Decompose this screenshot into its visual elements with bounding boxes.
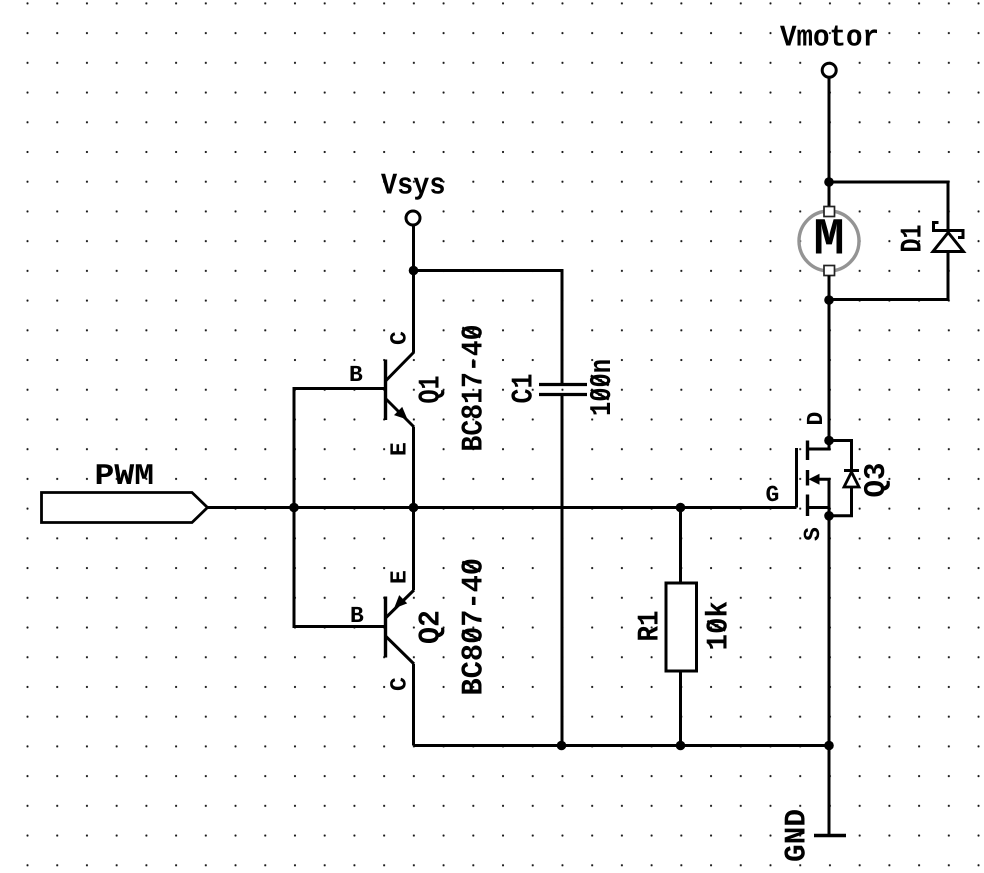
pin label G <box>766 486 778 502</box>
body diode branch top <box>829 441 852 471</box>
pin label C <box>390 332 406 344</box>
transistor Q1 BC817-40 NPN <box>351 326 482 455</box>
node junction Q1/Q2 emitters / PWM <box>409 503 419 513</box>
pin label E <box>390 571 405 582</box>
designator Q2 <box>418 612 444 643</box>
drain lead <box>809 441 829 450</box>
node junction R1 bottom <box>676 741 686 751</box>
node junction Vsys / C1 / Q1 collector <box>409 266 419 276</box>
wire base tie lower <box>294 508 385 627</box>
wire bottom rail Q2 to C1 <box>414 744 562 747</box>
pin label D <box>807 413 822 424</box>
resistor R1 10k <box>638 583 727 671</box>
bulk lead with arrow <box>815 479 829 516</box>
wire bottom rail R1 to GND node <box>681 744 830 747</box>
node junction source <box>824 511 834 521</box>
net flag PWM <box>42 464 208 522</box>
wire Q3 source vertical <box>828 516 831 746</box>
body diode <box>844 469 859 472</box>
designator R1 <box>638 612 658 640</box>
wire Q1 emitter node to R1 node <box>414 506 681 509</box>
power flag Vsys <box>381 174 444 225</box>
value 10k <box>705 602 727 649</box>
wire top rail to C1 <box>414 271 563 385</box>
transistor Q3 N-MOSFET <box>766 413 890 541</box>
transistor Q2 BC807-40 PNP <box>352 560 482 694</box>
pin label S <box>804 528 820 541</box>
pin label C <box>390 678 406 690</box>
wire Q3 drain vertical <box>828 300 831 441</box>
wire GND vertical <box>828 746 831 836</box>
wire PWM to base-tie junction <box>208 506 295 509</box>
wire D1 bottom branch <box>829 252 948 300</box>
wire R1 bottom vertical <box>679 671 682 746</box>
wire motor top lead <box>828 182 831 208</box>
designator D1 <box>901 226 921 252</box>
wire bottom rail C1 to R1 <box>562 744 681 747</box>
value BC817-40 <box>461 326 481 450</box>
designator C1 <box>511 375 531 403</box>
wire base-tie junction to Q1 emitter node <box>294 506 414 509</box>
wire Q2 collector vertical <box>412 664 415 746</box>
pin label E <box>390 443 405 454</box>
power flag Vmotor <box>780 26 877 78</box>
node junction C1 bottom <box>557 741 567 751</box>
value BC807-40 <box>461 560 481 694</box>
gate bar <box>795 448 798 508</box>
node junction motor top / D1 <box>824 177 834 187</box>
source lead <box>809 508 829 516</box>
node junction base tie / PWM <box>289 503 299 513</box>
designator Q3 <box>864 464 890 497</box>
wire R1 top vertical <box>679 508 682 584</box>
wire Q1 emitter vertical <box>412 427 415 508</box>
value 100n <box>590 360 610 414</box>
diode D1 schottky <box>901 223 964 252</box>
node junction motor bottom / D1 <box>824 295 834 305</box>
wire base tie upper <box>294 389 385 508</box>
wire D1 top branch <box>829 182 948 231</box>
channel dashes <box>806 441 809 461</box>
wire Vmotor drop <box>828 77 831 182</box>
motor M1 <box>799 207 859 276</box>
wire Q2 emitter vertical <box>412 508 415 591</box>
pin label B <box>351 366 363 381</box>
node junction source / bottom rail <box>824 741 834 751</box>
pin label B <box>352 607 364 622</box>
node junction gate / R1 <box>676 503 686 513</box>
wire Vsys drop <box>412 225 415 270</box>
designator Q1 <box>418 377 444 403</box>
wire R1 node to Q3 gate <box>681 506 797 509</box>
wire Q1 collector vertical <box>412 271 415 353</box>
capacitor C1 100n <box>511 360 610 414</box>
node junction drain <box>824 436 834 446</box>
ground GND <box>784 810 846 861</box>
wire motor bottom lead <box>828 276 831 301</box>
wire C1 bottom vertical <box>561 395 564 746</box>
body diode branch bottom <box>829 487 852 516</box>
